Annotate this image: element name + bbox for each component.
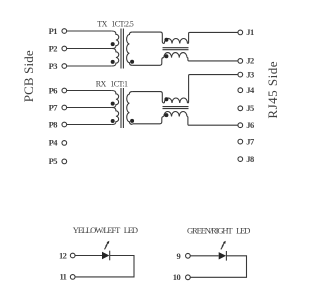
- pin P5 terminal circle: [62, 159, 67, 164]
- pin P2 terminal circle: [62, 46, 67, 51]
- polarity dot RX primary lower: [111, 119, 115, 123]
- transformer RX primary winding upper (P6-P7): [112, 91, 119, 108]
- wire pin P1 line: [67, 30, 112, 32]
- svg-text:J1: J1: [246, 27, 254, 37]
- svg-text:P3: P3: [49, 61, 58, 71]
- LED yellow: cathode bar: [109, 251, 111, 261]
- pin P1 terminal circle: [62, 29, 67, 34]
- wire TX secondary top edge to choke: [132, 32, 164, 43]
- pin J4 terminal circle: [238, 88, 243, 93]
- transformer TX primary winding upper (P1-P2): [112, 31, 119, 49]
- svg-text:RJ45 Side: RJ45 Side: [265, 61, 280, 119]
- svg-text:J8: J8: [246, 154, 254, 164]
- choke RX bottom winding: [164, 111, 187, 116]
- LED green: wire cathode to loop and pin 10: [190, 256, 246, 277]
- polarity dot RX choke bottom: [164, 113, 168, 117]
- pin J3 terminal circle: [238, 72, 243, 77]
- wire choke RX bottom to J6: [187, 117, 238, 126]
- pin P3 terminal circle: [62, 64, 67, 69]
- pin P4 terminal circle: [62, 141, 67, 146]
- polarity dot TX secondary: [130, 60, 134, 64]
- svg-text:10: 10: [173, 272, 181, 282]
- svg-text:J6: J6: [246, 120, 254, 130]
- svg-text:PCB Side: PCB Side: [21, 50, 36, 102]
- wire TX secondary bottom edge to choke: [132, 58, 163, 66]
- polarity dot RX primary upper: [111, 102, 115, 106]
- svg-text:YELLOW/LEFTLED: YELLOW/LEFTLED: [73, 225, 138, 235]
- wire RX secondary bottom edge to choke: [132, 117, 163, 124]
- svg-text:J2: J2: [246, 56, 254, 66]
- choke TX core: [163, 48, 189, 50]
- wire choke TX bottom to J2: [187, 58, 238, 61]
- pin J8 terminal circle: [238, 157, 243, 162]
- pin P6 terminal circle: [62, 88, 67, 93]
- svg-text:P6: P6: [49, 85, 58, 95]
- wire pin P8 line: [67, 124, 112, 126]
- svg-text:J7: J7: [246, 136, 255, 146]
- svg-text:J3: J3: [246, 69, 254, 79]
- LED green: pin 10 terminal circle: [186, 275, 191, 280]
- polarity dot RX choke top: [164, 97, 168, 101]
- svg-text:P7: P7: [49, 102, 59, 112]
- transformer TX primary winding lower (P2-P3): [112, 49, 119, 67]
- polarity dot TX choke top: [164, 38, 168, 42]
- polarity dot TX primary lower: [111, 60, 115, 64]
- LED green: pin 9 terminal circle: [186, 253, 191, 258]
- svg-text:J5: J5: [246, 103, 254, 113]
- pin J1 terminal circle: [238, 30, 243, 35]
- wire pin P7 line: [67, 107, 112, 109]
- LED green: arrow bolt: [221, 241, 226, 250]
- polarity dot TX choke bottom: [164, 54, 168, 58]
- wire choke TX top to J1: [188, 32, 239, 43]
- pin J6 terminal circle: [238, 123, 243, 128]
- LED yellow: wire cathode to loop and pin 11: [75, 256, 134, 277]
- LED yellow: pin 11 terminal circle: [70, 275, 75, 280]
- transformer TX core: [121, 29, 123, 69]
- pin J2 terminal circle: [238, 59, 243, 64]
- wire pin P2 line: [67, 48, 112, 50]
- svg-text:11: 11: [59, 272, 66, 282]
- transformer TX secondary winding: [127, 32, 133, 65]
- LED yellow: arrow bolt: [105, 241, 110, 250]
- svg-text:TX1CT:2.5: TX1CT:2.5: [97, 20, 134, 29]
- svg-text:P8: P8: [49, 119, 58, 129]
- pin J7 terminal circle: [238, 139, 243, 144]
- svg-text:P1: P1: [49, 26, 58, 36]
- svg-text:P4: P4: [49, 138, 59, 148]
- pin P8 terminal circle: [62, 122, 67, 127]
- svg-text:12: 12: [59, 250, 67, 260]
- LED yellow: diode triangle D1: [102, 252, 109, 259]
- svg-text:P5: P5: [49, 156, 58, 166]
- wire pin P6 line: [67, 90, 112, 92]
- svg-text:P2: P2: [49, 43, 58, 53]
- transformer RX primary winding lower (P7-P8): [112, 108, 119, 125]
- choke TX bottom winding: [164, 53, 187, 58]
- LED green: cathode bar: [225, 251, 227, 261]
- svg-text:9: 9: [176, 251, 180, 261]
- transformer RX core: [121, 88, 123, 128]
- choke RX top winding: [164, 98, 187, 103]
- choke TX top winding: [164, 38, 187, 43]
- LED yellow: wire pin12 to anode: [75, 255, 102, 257]
- pin P7 terminal circle: [62, 105, 67, 110]
- svg-text:GREEN/RIGHTLED: GREEN/RIGHTLED: [187, 225, 250, 235]
- svg-text:J4: J4: [246, 85, 255, 95]
- wire RX secondary top edge to choke: [132, 92, 164, 103]
- polarity dot RX secondary: [130, 119, 134, 123]
- transformer RX secondary winding: [127, 92, 133, 125]
- LED yellow: pin 12 terminal circle: [70, 253, 75, 258]
- choke RX core: [163, 107, 189, 109]
- wire choke RX top to J3: [188, 75, 239, 103]
- LED green: diode triangle D2: [219, 252, 226, 259]
- pin J5 terminal circle: [238, 106, 243, 111]
- svg-text:RX1CT:1: RX1CT:1: [96, 80, 128, 89]
- wire pin P3 line: [67, 65, 112, 67]
- LED green: wire pin9 to anode: [190, 255, 218, 257]
- polarity dot TX primary upper: [111, 42, 115, 46]
